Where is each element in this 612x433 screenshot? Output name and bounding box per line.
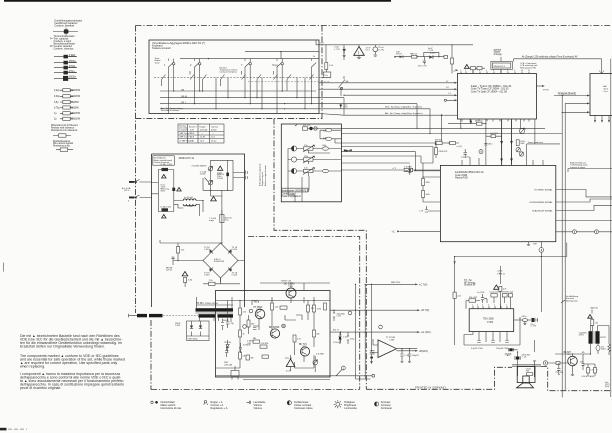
svg-text:1 (T): 1 (T) — [522, 356, 526, 358]
svg-text:Tonsignal (Sound): Tonsignal (Sound) — [558, 93, 576, 95]
svg-text:+B 7(V): +B 7(V) — [421, 309, 430, 312]
svg-text:—: — — [212, 133, 214, 135]
svg-text:T 1,6A: T 1,6A — [160, 163, 167, 166]
svg-text:324 L502: 324 L502 — [469, 297, 477, 299]
svg-text:T 1,6A L 602: T 1,6A L 602 — [160, 205, 172, 208]
svg-text:R62: R62 — [248, 343, 251, 345]
svg-text:13,4,2: 13,4,2 — [211, 141, 216, 143]
svg-text:Resistenza a filo: Resistenza a filo — [53, 145, 71, 148]
svg-text:Ta: Ta — [313, 56, 316, 58]
svg-text:88mA: 88mA — [254, 301, 260, 304]
svg-text:Volume: Volume — [254, 406, 263, 410]
svg-text:C 625: C 625 — [204, 275, 210, 277]
svg-text:47k: 47k — [243, 356, 246, 358]
svg-text:C 1 7k: C 1 7k — [531, 326, 537, 328]
svg-text:—: — — [201, 133, 203, 135]
svg-text:Anzeige: Anzeige — [494, 53, 503, 56]
svg-text:1,3k: 1,3k — [275, 307, 279, 309]
svg-text:Piastra regolazioni: Piastra regolazioni — [282, 195, 302, 198]
svg-text:L4: L4 — [449, 93, 452, 95]
svg-text:C 08: C 08 — [429, 50, 434, 52]
svg-text:L 517: L 517 — [337, 315, 342, 317]
svg-text:PRINTED IN GERMANY: PRINTED IN GERMANY — [415, 386, 446, 389]
svg-text:L2: L2 — [446, 81, 448, 83]
svg-text:Contrasto: Contrasto — [381, 406, 393, 410]
svg-text:1: 1 — [164, 64, 166, 67]
svg-text:M: M — [283, 325, 285, 328]
svg-text:2700Ω: 2700Ω — [217, 178, 223, 180]
svg-text:1k: 1k — [243, 334, 245, 336]
svg-text:1,25: 1,25 — [323, 137, 327, 139]
svg-text:Control board: Control board — [282, 192, 297, 195]
svg-text:BC 32545: BC 32545 — [269, 327, 280, 329]
svg-text:+G (11V): +G (11V) — [421, 331, 431, 334]
svg-text:0,5µ: 0,5µ — [54, 102, 59, 104]
svg-text:C 626: C 626 — [232, 275, 238, 277]
svg-text:56k: 56k — [317, 334, 320, 336]
svg-text:100k: 100k — [426, 182, 430, 184]
svg-text:Tr6874: Tr6874 — [223, 319, 229, 322]
svg-text:1: 1 — [472, 304, 473, 306]
svg-text:Tastiera comandi: Tastiera comandi — [152, 47, 171, 50]
svg-text:L 603: L 603 — [188, 206, 194, 208]
svg-text:4,8V/1A: 4,8V/1A — [200, 129, 208, 132]
svg-text:Tasto: Tasto — [155, 61, 161, 64]
svg-text:10: 10 — [521, 70, 523, 72]
svg-text:500k: 500k — [520, 143, 524, 145]
svg-text:1: 1 — [460, 70, 461, 72]
svg-text:22k: 22k — [595, 323, 598, 325]
svg-text:1N C 776: 1N C 776 — [418, 66, 428, 68]
svg-text:Contrasto colore: Contrasto colore — [294, 406, 313, 410]
svg-text:470Ω D76: 470Ω D76 — [439, 151, 448, 153]
svg-text:7: 7 — [506, 304, 507, 306]
svg-text:T 84: T 84 — [567, 354, 572, 356]
svg-text:390: 390 — [251, 324, 254, 326]
svg-text:Bereich I: Bereich I — [189, 127, 197, 129]
svg-text:TAE 0,1: TAE 0,1 — [410, 52, 418, 55]
svg-text:D 717: D 717 — [430, 53, 436, 55]
svg-text:82k: 82k — [580, 361, 583, 363]
svg-text:Montage pins: Montage pins — [566, 299, 578, 302]
svg-text:Hed - Sp (Tang. voltge)(Sec. d: Hed - Sp (Tang. voltge)(Sec. di perforc) — [385, 105, 423, 108]
svg-text:29517: 29517 — [396, 54, 403, 56]
svg-text:1µ: 1µ — [54, 113, 57, 115]
svg-text:3,3µ/16 C505: 3,3µ/16 C505 — [471, 348, 483, 350]
svg-text:0,33µ: 0,33µ — [54, 96, 60, 98]
svg-text:1µ3 C112: 1µ3 C112 — [490, 133, 498, 135]
svg-text:(M) (b): (M) (b) — [181, 96, 188, 98]
svg-text:Abl - Sp / Svmg. voltge/(Imp.: Abl - Sp / Svmg. voltge/(Imp. di perforc… — [385, 112, 423, 115]
svg-text:11: 11 — [528, 70, 530, 72]
svg-text:(M): (M) — [181, 89, 184, 91]
svg-text:904: 904 — [526, 371, 529, 373]
svg-text:1 608: 1 608 — [175, 325, 180, 327]
svg-text:250V~: 250V~ — [161, 190, 168, 192]
svg-text:Range I: Range I — [200, 127, 207, 129]
svg-text:fuse: fuse — [225, 219, 230, 221]
svg-text:2: 2 — [465, 70, 466, 72]
svg-text:6: 6 — [493, 70, 494, 72]
svg-text:47k 4,7k: 47k 4,7k — [303, 125, 310, 127]
svg-text:2,6k: 2,6k — [243, 312, 247, 314]
svg-text:TN 470k: TN 470k — [224, 342, 231, 344]
svg-text:2,2k: 2,2k — [457, 296, 461, 298]
svg-text:C 76: C 76 — [419, 211, 423, 213]
svg-text:L 601: L 601 — [167, 164, 173, 166]
svg-text:68k: 68k — [253, 338, 256, 340]
svg-text:T 88/57 C32: T 88/57 C32 — [281, 281, 292, 283]
svg-text:ROT/RED SIGNAL: ROT/RED SIGNAL — [534, 188, 553, 191]
svg-text:12,6: 12,6 — [211, 137, 215, 139]
svg-text:Farb/RGB 29504-015.10: Farb/RGB 29504-015.10 — [455, 170, 484, 174]
svg-text:2,5k: 2,5k — [304, 145, 308, 147]
svg-text:GRÜN/GREEN SIGNAL: GRÜN/GREEN SIGNAL — [530, 201, 554, 204]
svg-text:29504-011.3: 29504-011.3 — [493, 66, 505, 68]
svg-text:1 A73: 1 A73 — [506, 354, 511, 357]
svg-text:+C: +C — [392, 232, 395, 234]
svg-text:SMP 112k: SMP 112k — [391, 282, 401, 284]
svg-text:4,7Ω: 4,7Ω — [188, 280, 193, 282]
svg-text:6: 6 — [500, 304, 501, 306]
svg-text:1µ C504: 1µ C504 — [477, 292, 485, 294]
svg-text:220 V~: 220 V~ — [124, 190, 131, 192]
svg-text:3: 3 — [482, 304, 483, 306]
svg-text:Ersatzfall dürfen nur Original: Ersatzfall dürfen nur Originalteile Verw… — [20, 345, 105, 349]
svg-text:VDR 350Ω: VDR 350Ω — [188, 339, 198, 341]
svg-text:C 508: C 508 — [389, 340, 394, 342]
svg-text:184.1: 184.1 — [488, 144, 493, 146]
svg-text:träge: träge — [209, 219, 215, 222]
svg-text:C 624: C 624 — [232, 249, 238, 251]
svg-text:BLAU/BLUE SIGNAL: BLAU/BLUE SIGNAL — [532, 209, 553, 212]
svg-text:Piastra RGB: Piastra RGB — [455, 177, 468, 180]
svg-text:9: 9 — [514, 70, 515, 72]
svg-text:470µ: 470µ — [350, 339, 355, 341]
svg-text:Luminosita: Luminosita — [344, 406, 357, 410]
svg-text:Bobina smagnetizzante: Bobina smagnetizzante — [264, 164, 267, 186]
svg-text:0,22µ C503: 0,22µ C503 — [490, 292, 500, 294]
svg-text:Condens. passante: Condens. passante — [55, 24, 76, 27]
svg-text:12 B: 12 B — [190, 137, 195, 139]
svg-text:STYS: STYS — [543, 90, 549, 92]
svg-text:2: 2 — [477, 304, 478, 306]
svg-text:496 62k: 496 62k — [435, 139, 443, 141]
svg-text:Regolatore + A: Regolatore + A — [211, 406, 228, 410]
svg-text:1,6R 1A4: 1,6R 1A4 — [224, 363, 232, 366]
svg-text:4: 4 — [479, 70, 480, 72]
svg-text:42k: 42k — [582, 352, 585, 354]
svg-text:11: 11 — [499, 273, 501, 275]
svg-text:4,7k: 4,7k — [503, 289, 507, 291]
svg-text:Entmagnetisierungsspule: Entmagnetisierungsspule — [259, 163, 262, 186]
svg-text:0,75µ: 0,75µ — [54, 107, 60, 109]
svg-text:470/560 1µ3: 470/560 1µ3 — [502, 292, 513, 294]
svg-text:VDE: VDE — [533, 244, 538, 246]
svg-text:L67: L67 — [321, 43, 324, 45]
svg-text:4: 4 — [488, 304, 489, 306]
svg-text:+ (4-1): + (4-1) — [456, 146, 462, 148]
svg-text:29304-072.11: 29304-072.11 — [179, 156, 195, 160]
svg-text:pezzi di ricambio originali.: pezzi di ricambio originali. — [20, 386, 61, 390]
svg-text:when replacing.: when replacing. — [20, 365, 45, 369]
svg-text:2: 2 — [190, 64, 192, 67]
svg-text:L 776: L 776 — [335, 49, 341, 51]
svg-text:!: ! — [358, 50, 359, 55]
svg-text:7: 7 — [241, 64, 243, 67]
svg-text:5: 5 — [486, 70, 487, 72]
svg-text:Sezione BF: Sezione BF — [464, 285, 476, 287]
svg-text:+B(12V): +B(12V) — [590, 308, 598, 310]
svg-text:(9-0): (9-0) — [605, 386, 609, 388]
svg-text:47/1µ: 47/1µ — [522, 316, 528, 318]
svg-text:A 63: A 63 — [344, 105, 348, 108]
svg-text:T.5x: T.5x — [324, 75, 328, 77]
svg-text:TDA 1905: TDA 1905 — [483, 318, 494, 321]
svg-text:T 612: T 612 — [302, 346, 307, 348]
svg-text:1,2µ C710: 1,2µ C710 — [461, 156, 470, 158]
svg-text:2,5k: 2,5k — [304, 168, 308, 170]
svg-text:C 512: C 512 — [343, 337, 348, 339]
svg-text:0,5 W: 0,5 W — [286, 371, 291, 373]
svg-text:100k: 100k — [426, 194, 430, 196]
svg-text:8: 8 — [507, 70, 508, 72]
svg-text:5: 5 — [494, 304, 495, 306]
svg-text:100k: 100k — [322, 145, 326, 147]
svg-text:100µ/16 C506: 100µ/16 C506 — [496, 348, 508, 350]
svg-text:b: b — [128, 201, 129, 203]
svg-text:2,5k: 2,5k — [323, 131, 327, 133]
svg-text:2x27Ω: 2x27Ω — [200, 173, 206, 175]
svg-text:2,2k: 2,2k — [209, 280, 214, 282]
svg-text:100µ/25: 100µ/25 — [412, 355, 419, 357]
svg-text:Interruttore di rete: Interruttore di rete — [161, 406, 182, 410]
svg-text:2 (0) 965 980379: 2 (0) 965 980379 — [192, 165, 207, 167]
svg-text:68k: 68k — [251, 358, 254, 360]
svg-text:D 776: D 776 — [378, 49, 384, 51]
svg-text:4,7k: 4,7k — [297, 339, 301, 341]
svg-text:2,7k R68: 2,7k R68 — [316, 354, 324, 356]
svg-text:2µ: 2µ — [54, 119, 57, 121]
svg-text:C4: C4 — [446, 87, 449, 89]
svg-text:C 502: C 502 — [487, 322, 494, 324]
svg-text:3200/2200: 3200/2200 — [214, 261, 225, 263]
svg-text:+C: +C — [453, 70, 456, 72]
svg-text:+B(12V): +B(12V) — [419, 350, 428, 353]
svg-text:Cert: Cert — [603, 90, 607, 93]
svg-text:Degaussing coil: Degaussing coil — [262, 171, 264, 186]
svg-text:D(6)2: D(6)2 — [601, 348, 606, 350]
svg-text:8 (a): 8 (a) — [273, 64, 278, 67]
svg-text:M.B appunta FIB: M.B appunta FIB — [520, 66, 536, 69]
svg-text:1,7M: 1,7M — [317, 309, 322, 311]
svg-text:Condens. ceramico: Condens. ceramico — [54, 47, 75, 50]
svg-text:Ab (Zange) LCB switching volt: Ab (Zange) LCB switching voltage (Terra … — [522, 56, 578, 59]
svg-text:4,8V: 4,8V — [190, 130, 195, 132]
svg-text:T 611: T 611 — [288, 286, 293, 288]
svg-text:C 623: C 623 — [204, 249, 210, 251]
svg-text:Secondo di comenz: Secondo di comenz — [161, 110, 179, 112]
svg-text:1,5k: 1,5k — [329, 65, 334, 67]
svg-text:0,22µ: 0,22µ — [54, 90, 60, 92]
svg-text:Colour RGB: Colour RGB — [455, 174, 468, 177]
svg-text:+C 7(V): +C 7(V) — [419, 283, 428, 286]
svg-text:ZTK 33: ZTK 33 — [285, 358, 293, 360]
svg-text:0,5 s: 0,5 s — [366, 50, 371, 52]
svg-text:4,7k R17: 4,7k R17 — [404, 166, 412, 168]
svg-text:2,2k R18: 2,2k R18 — [261, 343, 269, 345]
svg-text:12,6: 12,6 — [200, 141, 204, 143]
svg-text:1,25(-5): 1,25(-5) — [333, 342, 340, 344]
svg-text:11,7B: 11,7B — [200, 137, 206, 139]
svg-text:Condens. a regol.: Condens. a regol. — [54, 40, 72, 43]
svg-text:TN 1,75Ω: TN 1,75Ω — [555, 372, 564, 374]
svg-text:+7,5: +7,5 — [392, 168, 397, 170]
svg-text:1µF 25: 1µF 25 — [166, 269, 172, 271]
svg-text:C5Q2: C5Q2 — [526, 369, 531, 371]
svg-text:4,8V/2: 4,8V/2 — [211, 130, 217, 132]
svg-text:12 B: 12 B — [190, 133, 195, 135]
svg-text:902: 902 — [311, 308, 314, 310]
svg-text:47µ: 47µ — [231, 323, 235, 325]
svg-text:82k 77: 82k 77 — [333, 330, 339, 332]
svg-text:(M) 1: (M) 1 — [181, 102, 187, 104]
svg-text:Gamma: Gamma — [211, 127, 219, 129]
svg-text:Color TV (pal) CF 29504 - 01: Color TV (pal) CF 29504 - 011 08 — [471, 91, 508, 94]
svg-text:22k: 22k — [181, 250, 185, 252]
svg-text:Contacto temperat.: Contacto temperat. — [220, 70, 238, 73]
svg-text:(TKP): (TKP) — [579, 334, 584, 336]
svg-text:250k: 250k — [304, 156, 308, 158]
svg-text:Resistenza con tolleranza: Resistenza con tolleranza — [51, 129, 78, 132]
svg-text:Lampenft.: Lampenft. — [180, 129, 189, 132]
svg-text:T 613: T 613 — [256, 309, 261, 311]
svg-text:BY127: BY127 — [600, 337, 606, 339]
